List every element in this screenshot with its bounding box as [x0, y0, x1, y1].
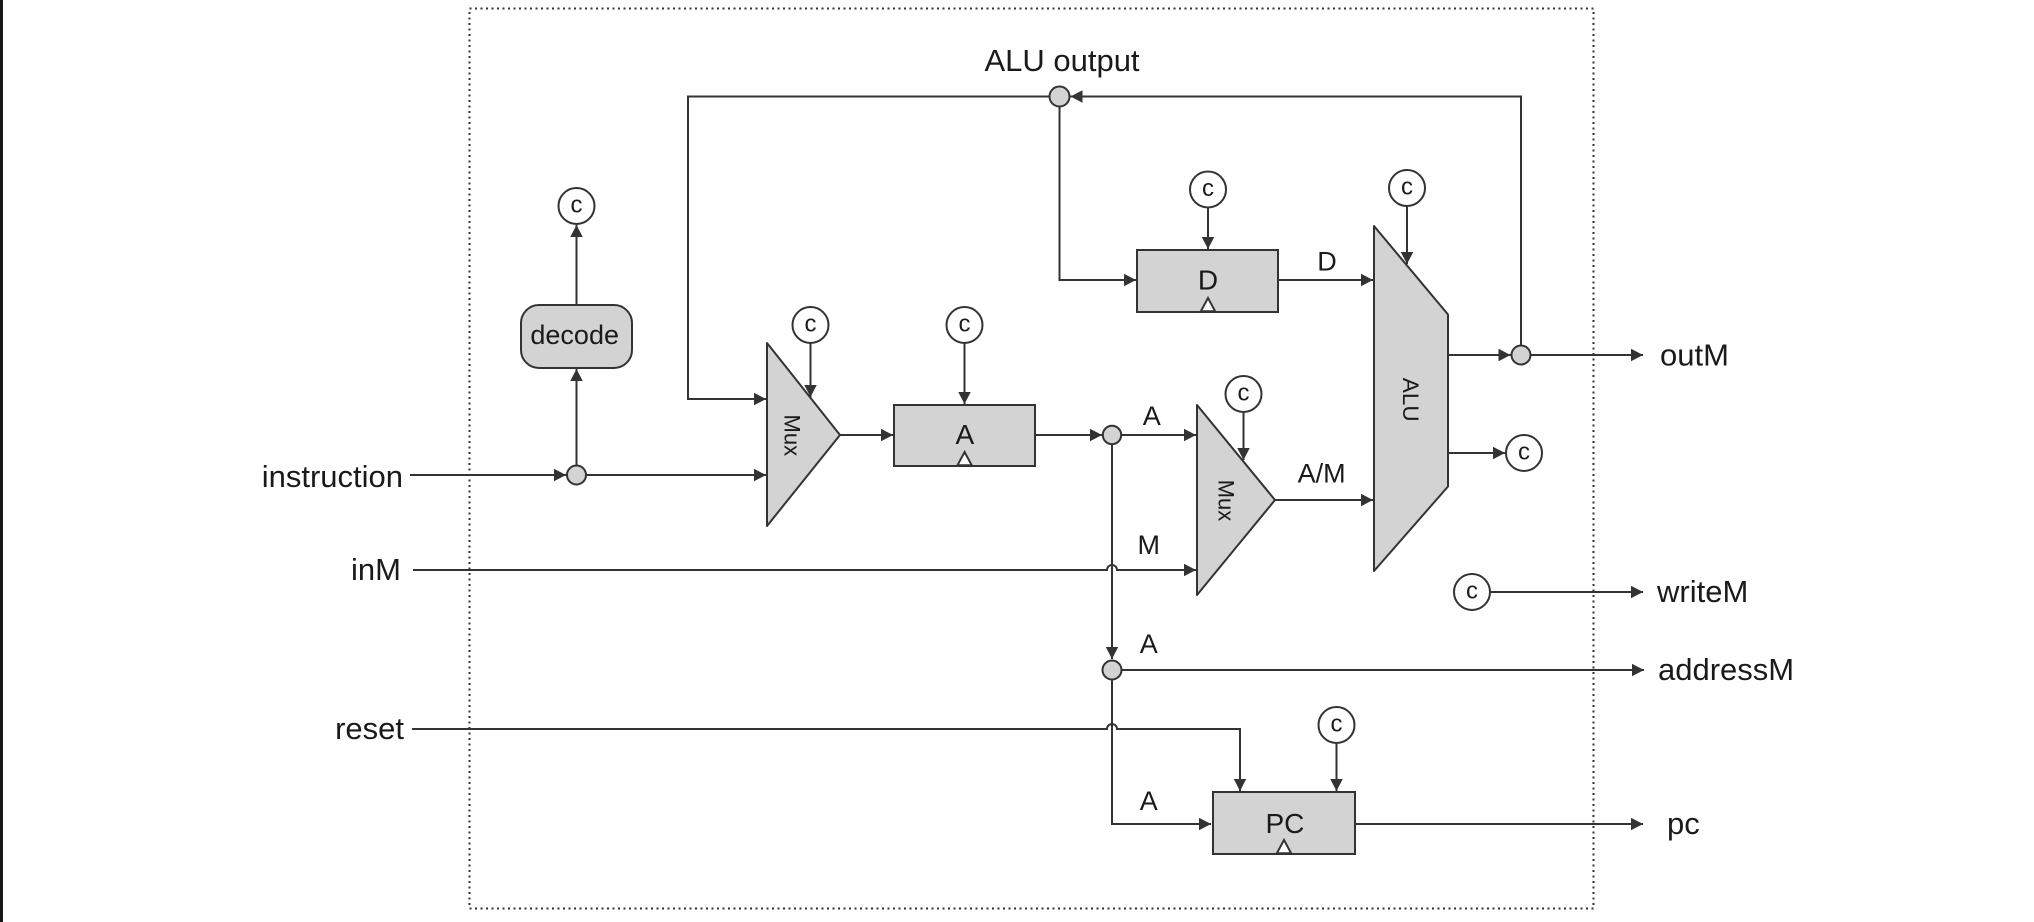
svg-text:c: c	[1401, 173, 1413, 200]
wire node A down to node addressM	[1111, 444, 1113, 659]
svg-text:reset: reset	[335, 711, 404, 746]
wire c to ALU	[1406, 206, 1408, 264]
register PC	[1213, 792, 1355, 854]
wire node addressM down to PC	[1112, 680, 1211, 825]
node ALU output (right)	[1512, 346, 1531, 365]
wire c to register A	[964, 343, 966, 404]
svg-text:Mux: Mux	[1214, 480, 1239, 522]
control bit c (Mux1)	[793, 307, 829, 343]
svg-text:A: A	[1140, 786, 1158, 816]
wire inM input (hops over vertical A wire)	[413, 565, 1196, 570]
wire c to Mux1	[810, 343, 812, 397]
svg-text:D: D	[1198, 265, 1218, 296]
node ALU output (top)	[1050, 87, 1070, 107]
svg-text:c: c	[959, 310, 971, 337]
svg-text:A/M: A/M	[1298, 459, 1346, 489]
svg-text:ALU output: ALU output	[984, 43, 1139, 78]
svg-text:Mux: Mux	[780, 415, 805, 457]
wire register A to node A	[1035, 434, 1102, 436]
wire node to outM	[1531, 354, 1644, 356]
svg-text:PC: PC	[1265, 808, 1304, 839]
svg-text:D: D	[1317, 247, 1337, 277]
svg-text:A: A	[956, 419, 975, 450]
svg-text:c: c	[1518, 438, 1530, 465]
control bit c (Mux2)	[1226, 376, 1262, 412]
wire node to addressM	[1122, 669, 1645, 671]
decode block	[521, 305, 632, 368]
wire top junction to register D	[1060, 107, 1137, 281]
ALU	[1374, 226, 1448, 571]
node A	[1103, 426, 1121, 444]
wire instruction input	[410, 474, 566, 476]
mux Mux1	[767, 343, 840, 526]
svg-text:addressM: addressM	[1658, 652, 1794, 687]
svg-text:outM: outM	[1660, 338, 1729, 373]
wire ALU output feedback to top junction	[1071, 97, 1522, 346]
svg-text:c: c	[805, 310, 817, 337]
wire reset input (hops over vertical A wire)	[412, 724, 1240, 791]
control bit c (register A)	[947, 307, 983, 343]
wire junction to Mux1	[586, 474, 766, 476]
wire decode to control bit c	[576, 225, 578, 305]
wire c to writeM	[1490, 591, 1643, 593]
wire register D to ALU	[1278, 279, 1373, 281]
mux Mux2	[1197, 405, 1275, 595]
svg-text:c: c	[1331, 710, 1343, 737]
svg-text:M: M	[1137, 530, 1160, 560]
wire node A to Mux2	[1122, 434, 1197, 436]
svg-text:decode: decode	[530, 320, 619, 350]
wire Mux2 to ALU (A/M)	[1275, 499, 1373, 501]
svg-text:A: A	[1143, 401, 1161, 431]
CPU chip boundary (dotted)	[470, 9, 1594, 909]
control bit c (ALU flags)	[1506, 435, 1542, 471]
svg-text:c: c	[1238, 379, 1250, 406]
node instruction junction	[567, 466, 586, 485]
control bit c (ALU)	[1389, 170, 1425, 206]
svg-text:c: c	[571, 191, 583, 218]
svg-text:instruction: instruction	[262, 459, 403, 494]
wire ALU flags to c	[1448, 452, 1505, 454]
wire ALU to node ALU-output	[1448, 354, 1511, 356]
svg-text:inM: inM	[351, 552, 401, 587]
control bit c (decode)	[559, 188, 595, 224]
wire c to Mux2	[1243, 412, 1245, 460]
control bit c (writeM)	[1454, 574, 1490, 610]
wire c to register D	[1207, 208, 1209, 250]
svg-text:A: A	[1140, 629, 1158, 659]
svg-text:pc: pc	[1667, 806, 1700, 841]
svg-text:writeM: writeM	[1656, 574, 1748, 609]
wire ALU feedback to Mux1 upper input	[688, 97, 1050, 400]
wire c to PC	[1336, 743, 1338, 791]
svg-text:ALU: ALU	[1398, 378, 1423, 422]
control bit c (register D)	[1190, 172, 1226, 208]
wire junction to decode	[576, 369, 578, 465]
node addressM	[1103, 661, 1122, 680]
register D	[1137, 250, 1278, 312]
page left border	[0, 0, 3, 922]
control bit c (PC)	[1319, 707, 1355, 743]
register A	[894, 405, 1035, 466]
wire Mux1 to register A	[840, 434, 893, 436]
svg-text:c: c	[1202, 175, 1214, 202]
wire PC to pc output	[1355, 823, 1643, 825]
svg-text:c: c	[1466, 577, 1478, 604]
